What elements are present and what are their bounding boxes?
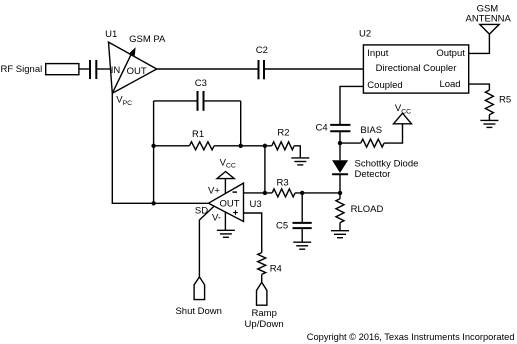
wire U1 out to C2 [157,68,258,70]
schottky diode D1 [332,160,348,173]
wire R2 to ground [294,146,300,158]
wire C3 top [154,100,198,102]
GSM antenna [480,24,499,34]
wire load to R5 [469,84,490,90]
minus pin mark [233,191,238,193]
svg-text:U3: U3 [250,199,262,210]
svg-text:C3: C3 [195,78,207,89]
ground (R5) [480,120,498,127]
wire source box to C1 [79,68,90,70]
svg-text:Detector: Detector [355,169,391,180]
wire feedback vertical [264,146,266,193]
wire loop left vertical [153,101,155,203]
svg-text:U1: U1 [105,29,117,40]
svg-text:R5: R5 [499,95,511,106]
wire R4 to ramp terminal [261,274,263,282]
wire R3 to diode node [295,192,340,194]
svg-text:R1: R1 [192,129,204,140]
svg-text:Load: Load [439,79,460,90]
resistor R1 [154,145,190,147]
ground (U3 V-) [217,230,235,237]
resistor RLOAD [339,193,341,199]
svg-text:Copyright © 2016, Texas Instru: Copyright © 2016, Texas Instruments Inco… [307,332,515,342]
node diode/RLOAD [338,191,342,195]
node VPC/loop [151,201,155,205]
svg-text:C5: C5 [276,221,288,232]
svg-text:R3: R3 [277,178,289,189]
wire C5 to ground [301,228,303,242]
node R1 right [239,144,243,148]
resistor R4 [258,253,266,275]
U1 gain arrow [112,52,132,93]
capacitor C3 [197,91,199,111]
svg-text:U2: U2 [359,29,371,40]
RF source box [46,64,79,75]
node C4/BIAS junction [338,141,342,145]
VCC symbol (U3) [217,172,234,179]
node feedback [263,144,267,148]
wire VPC down and to U3 output [112,93,208,203]
svg-text:GSM PA: GSM PA [129,34,166,45]
node C5 [300,191,304,195]
wire loop right vertical [240,101,242,146]
wire coupled to C4 [340,86,363,125]
capacitor C5 [293,222,312,224]
wire node to C5 [301,193,303,223]
wire diode to node [339,174,341,193]
svg-text:BIAS: BIAS [360,125,382,136]
svg-text:C2: C2 [256,45,268,56]
shutdown terminal [194,277,205,300]
svg-text:R2: R2 [277,127,289,138]
op-amp U3 triangle [209,183,244,221]
svg-text:RF Signal: RF Signal [1,64,43,75]
svg-text:V+: V+ [208,186,220,197]
wire C4 to diode [339,131,341,160]
resistor BIAS [340,142,361,144]
capacitor C2 [258,60,260,79]
svg-text:RLOAD: RLOAD [351,204,384,215]
svg-text:R4: R4 [270,264,282,275]
capacitor C1 [89,60,91,79]
ground (R2) [291,158,309,165]
svg-text:IN: IN [111,65,121,76]
svg-text:Shut Down: Shut Down [175,306,221,317]
wire R5 to ground [488,115,490,121]
wire BIAS to VCC [384,124,402,143]
svg-text:Coupled: Coupled [367,80,402,91]
ground (RLOAD) [331,231,349,238]
svg-text:C4: C4 [316,123,328,134]
svg-text:Up/Down: Up/Down [245,319,284,330]
svg-text:Directional Coupler: Directional Coupler [376,63,457,74]
wire U3 V- to ground [224,212,226,230]
svg-text:OUT: OUT [127,66,147,77]
VCC symbol (BIAS) [394,113,412,124]
node R1 left [151,144,155,148]
wire U3 minus input to R3 [244,192,273,194]
node minus input [263,191,267,195]
capacitor C4 [330,124,350,126]
svg-text:OUT: OUT [220,199,240,210]
wire SD to shutdown terminal [199,206,214,277]
svg-text:SD: SD [195,205,208,216]
resistor R2 [272,142,294,150]
resistor R3 [272,189,295,197]
op-amp U1 GSM PA triangle [109,42,157,93]
wire output to antenna [469,34,490,53]
directional coupler U2 box [363,45,468,93]
plus pin mark [233,210,238,215]
svg-text:Ramp: Ramp [252,308,277,319]
wire VCC to U3 V+ [224,179,226,194]
wire U3 plus input to R4 [244,213,262,253]
ramp terminal [257,282,267,305]
ground (C5) [293,242,311,249]
svg-text:V-: V- [212,213,221,224]
svg-text:Input: Input [367,48,388,59]
wire C1 to U1 input [96,68,110,70]
wire C2 to U2 input [265,68,363,70]
svg-text:Output: Output [436,48,465,59]
resistor R5 [485,90,493,115]
svg-text:ANTENNA: ANTENNA [465,14,511,25]
